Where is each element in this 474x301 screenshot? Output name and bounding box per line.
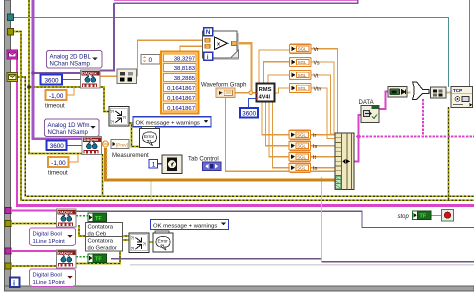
wire: pink task tunnel to DAQmx read 4 — [12, 250, 57, 252]
wire: orange RMS top out to Vs — [264, 62, 291, 84]
label box Contatora do Gerador — [86, 237, 123, 252]
wire: orange waveform graph bottom to bundle — [226, 98, 336, 172]
while loop left border — [5, 0, 11, 290]
svg-text:38,8183: 38,8183 — [174, 66, 196, 72]
wire: blue 3600 to DAQmx read1 — [62, 79, 81, 81]
DAQmx read 1 — [81, 70, 101, 88]
wire: orange RMS top out to Vt — [268, 75, 290, 84]
TCP write vi — [451, 87, 473, 108]
svg-text:Is: Is — [313, 144, 317, 150]
combo: Digital Bool 1Line 1Point (2) — [30, 269, 76, 287]
typecast funnel vi — [413, 82, 430, 100]
svg-text:Ir: Ir — [313, 133, 316, 139]
labels V — [314, 47, 322, 92]
wire: magenta DATA out to flatten vi — [379, 92, 388, 110]
wire: teal refnum vertical at right edge — [469, 0, 471, 87]
wire: purple line from DAQmx3 across to right edge — [76, 211, 474, 227]
TF indicator 1 — [88, 213, 107, 222]
svg-text:0: 0 — [149, 57, 153, 64]
wire: DAQmx read 4 error out up to merge errors — [76, 240, 129, 264]
svg-text:TCP: TCP — [453, 88, 462, 93]
wire: pale teal vertical — [321, 177, 323, 262]
waveform graph terminal — [216, 88, 235, 98]
merge errors vi 2 — [129, 233, 149, 253]
node: olive channel envelope — [7, 73, 18, 82]
svg-text:38,3297: 38,3297 — [174, 56, 195, 62]
combo: Analog 1D Wfm NChan NSamp — [45, 119, 100, 137]
wire: orange timeout2 to DAQmx read2 — [68, 154, 78, 162]
wire: top magenta+purple band — [114, 0, 358, 2]
wire: error cluster olive from envelope node down and across — [17, 77, 474, 196]
tunnel: magenta task 4 — [5, 248, 11, 254]
wire: orange RMS bottom out to Ir — [262, 102, 289, 135]
numeric constant -1,00 (1) — [46, 90, 67, 100]
wire: merge errors to error handler 2 — [149, 241, 154, 243]
junction: olive error split — [27, 85, 31, 89]
tunnel: olive error 3 — [5, 221, 11, 227]
wire: orange In out to bundle — [311, 167, 335, 169]
convert SGL In — [289, 163, 311, 172]
labels I — [313, 133, 317, 172]
wire: orange array constant to multiply in2 — [180, 46, 206, 52]
svg-text:3600: 3600 — [242, 111, 256, 118]
wire: blue 1 to wait ms vi — [157, 163, 162, 165]
svg-text:[Prev]: [Prev] — [116, 143, 128, 148]
wire: orange RMS right out to Vtn — [275, 88, 291, 93]
wire: orange RMS bottom out to Is — [266, 102, 290, 146]
svg-text:38,2885: 38,2885 — [174, 76, 196, 82]
numeric constant 3600 (2) — [47, 141, 67, 151]
wire: error olive vertical x29 to DAQmx read 2 error in — [29, 0, 82, 154]
DATA variant icon — [361, 106, 379, 123]
svg-text:0,1641867: 0,1641867 — [167, 86, 195, 92]
wire: orange RMS bottom out to It — [269, 102, 289, 157]
tunnel: olive error — [8, 29, 14, 36]
node: magenta channel envelope — [7, 50, 18, 59]
svg-text:Vr: Vr — [314, 47, 319, 53]
wire: error tunnel to DAQmx read 4 — [12, 265, 57, 267]
index box of array constant — [141, 55, 160, 65]
wire: orange thick array bus from DAQmx read2 to bundle — [106, 148, 336, 180]
numeric constant 1 — [149, 160, 158, 169]
decimate array icon — [117, 69, 137, 84]
svg-text:Digital Bool: Digital Bool — [33, 231, 62, 237]
wire: purple error line lower right — [111, 258, 322, 260]
string subset vi — [431, 87, 447, 98]
wire: string pink from envelope tunnel down and across — [16, 55, 18, 207]
wire: icon chain nubs — [407, 91, 451, 93]
label box Contatora da Ceb — [86, 223, 123, 238]
DAQmx read 2 — [82, 137, 102, 155]
svg-text:1Line 1Point: 1Line 1Point — [33, 239, 66, 245]
svg-text:Analog 1D Wfm: Analog 1D Wfm — [48, 123, 90, 129]
wire: orange Ir out to bundle — [311, 134, 335, 136]
junction: purple task split — [31, 71, 35, 75]
wire: pale green vertical at x151 — [150, 181, 152, 200]
svg-text:Analog 2D DBL: Analog 2D DBL — [50, 54, 92, 60]
flatten to string vi — [388, 87, 407, 98]
array constant of DBL — [161, 52, 199, 114]
wire: boolean DAQmx4 to TF indicator — [76, 256, 88, 258]
wire: measurement merge error out to error handler 1 — [129, 123, 140, 147]
convert SGL It — [289, 152, 311, 161]
wire: orange Vs out to bundle — [311, 62, 334, 133]
wire: magenta cluster to right edge — [359, 136, 474, 138]
svg-text:i: i — [13, 278, 15, 287]
wire: error olive branch y87 to measurement merge — [29, 87, 109, 112]
TF indicator 2 — [88, 254, 107, 263]
svg-text:stop: stop — [398, 214, 410, 220]
svg-text:-1,00: -1,00 — [51, 160, 66, 167]
wire: DAQmx read 3 error out to merge errors — [79, 225, 129, 236]
error handler vi 2 — [153, 231, 173, 252]
svg-text:do Gerador: do Gerador — [88, 245, 117, 251]
wire: DAQmx task purple vertical x33 to read2 — [33, 0, 82, 139]
while loop bottom border — [5, 286, 474, 291]
combo: Analog 2D DBL NChan NSamp — [47, 51, 103, 69]
svg-text:3600: 3600 — [50, 143, 65, 150]
svg-text:Digital Bool: Digital Bool — [33, 272, 62, 278]
DAQmx read 3 — [57, 209, 77, 227]
svg-text:Vtn: Vtn — [314, 87, 322, 93]
junction: magenta cluster split — [356, 134, 362, 139]
RMS subvi — [256, 84, 275, 102]
wire: DAQmx read2 error out down to long error line — [102, 154, 104, 196]
loop iteration terminal i — [10, 278, 20, 288]
svg-text:0,1641867: 0,1641867 — [167, 96, 195, 102]
svg-text:Waveform Graph: Waveform Graph — [201, 82, 246, 88]
TF terminal stop — [413, 211, 432, 220]
svg-text:timeout: timeout — [48, 170, 68, 176]
wait ms multiple vi — [162, 155, 182, 174]
svg-text:1: 1 — [152, 162, 156, 169]
svg-text:Vt: Vt — [314, 73, 319, 79]
wire: orange RMS bottom out to In — [273, 102, 290, 168]
convert SGL Vs — [290, 58, 312, 67]
svg-text:Measurement: Measurement — [112, 153, 149, 159]
convert SGL Vtn — [290, 84, 312, 93]
tunnel: magenta task 3 — [5, 208, 11, 214]
wire: blue 3600 to RMS vi — [249, 99, 257, 109]
numeric constant 3600 (3) — [240, 108, 258, 118]
wire: magenta cluster bundle out to DATA variant — [354, 115, 361, 161]
tunnel: teal refnum — [8, 14, 14, 21]
stop button icon — [442, 210, 454, 222]
tunnel: olive error 4 — [5, 263, 11, 269]
svg-text:N: N — [206, 29, 211, 36]
wire: orange DAQmx1 data to decimate — [99, 75, 117, 77]
convert SGL Vr — [290, 44, 312, 53]
DAQmx read 4 — [57, 250, 77, 268]
measurement merge vi — [109, 107, 129, 127]
svg-text:3600: 3600 — [45, 77, 60, 84]
svg-text:1Line 1Point: 1Line 1Point — [33, 280, 66, 286]
wire: orange Vt out to bundle — [311, 75, 335, 134]
svg-text:NChan NSamp: NChan NSamp — [50, 62, 91, 68]
wire: olive error right vertical from TCP write down — [448, 107, 450, 200]
svg-text:RMS: RMS — [259, 87, 272, 93]
wire: pale gray horizontal — [130, 264, 474, 266]
numeric constant -1,00 (2) — [48, 157, 69, 167]
svg-text:OK message + warnings: OK message + warnings — [136, 121, 200, 127]
svg-text:NChan NSamp: NChan NSamp — [48, 130, 89, 136]
wire: DAQmx read1 error out down — [97, 83, 99, 87]
wire: orange Is out to bundle — [311, 145, 335, 147]
wire: orange RMS top out to Vr — [259, 50, 290, 84]
numeric constant 3600 (1) — [41, 75, 63, 85]
wire: orange multiply out down to graph junction — [237, 43, 252, 92]
convert SGL Vt — [290, 70, 312, 79]
wire: TCP refnum teal horizontal from loop tunnel to TCP write — [12, 18, 449, 88]
combo: OK message + warnings (1) — [133, 117, 211, 127]
svg-text:Vs: Vs — [314, 61, 320, 67]
wire: orange Vr out to bundle — [311, 49, 338, 133]
convert SGL Ir — [289, 130, 311, 139]
wire: blue 3600 to DAQmx read2 — [66, 145, 82, 147]
Prev constant box — [111, 140, 129, 149]
error handler vi 1 — [140, 127, 160, 148]
multiply subvi — [203, 28, 240, 61]
wire: orange It out to bundle — [311, 156, 335, 158]
wire: error cluster olive from top tunnel down and across bottom — [12, 32, 474, 201]
svg-text:4V4I: 4V4I — [259, 94, 271, 100]
svg-text:0,1641867: 0,1641867 — [167, 106, 195, 112]
svg-text:In: In — [313, 166, 317, 172]
convert SGL Is — [289, 141, 311, 150]
tab control terminal — [203, 162, 222, 171]
bundle cluster node — [335, 133, 354, 190]
svg-text:Contatora: Contatora — [88, 239, 114, 245]
feedback orange glyph — [103, 141, 109, 147]
combo: Digital Bool 1Line 1Point (1) — [30, 228, 76, 246]
svg-text:OK message + warnings: OK message + warnings — [153, 223, 217, 229]
wire: orange timeout1 to DAQmx read1 — [66, 88, 74, 95]
wire: DAQmx task purple from read1 up to top band — [99, 3, 114, 71]
wire: orange decimate out up to multiply in1 — [138, 40, 207, 76]
svg-text:-1,00: -1,00 — [49, 93, 64, 100]
combo: OK message + warnings (2) — [151, 220, 229, 230]
svg-text:Contatora: Contatora — [88, 225, 114, 231]
wire: magenta type input to typecast — [422, 99, 424, 137]
junction: orange graph junction — [249, 91, 253, 95]
wire: boolean DAQmx3 to TF indicator — [76, 215, 88, 217]
wire: orange Vtn out to bundle — [311, 88, 335, 139]
wire: gray stop TF to stop button — [431, 214, 442, 216]
wire: pink task tunnel to DAQmx read 3 — [12, 210, 57, 212]
svg-text:i: i — [207, 54, 209, 61]
wire: error tunnel to DAQmx read 3 — [12, 223, 57, 225]
wire: task branch to DAQmx read1 — [33, 72, 81, 74]
wire: orange junction to waveform graph terminal and RMS — [235, 92, 257, 94]
svg-text:timeout: timeout — [45, 103, 65, 109]
